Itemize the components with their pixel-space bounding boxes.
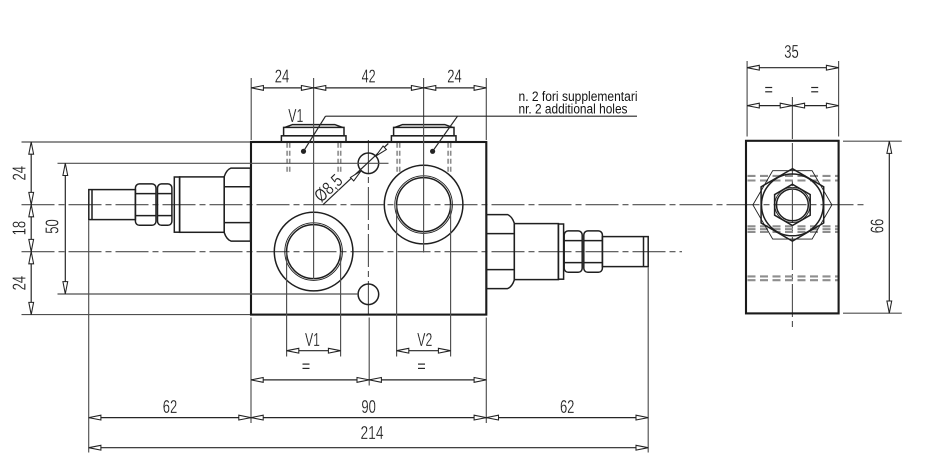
svg-text:50: 50 <box>42 219 62 234</box>
right fitting nut 1 <box>564 231 582 272</box>
left fitting body <box>180 177 225 232</box>
extension lines side view <box>747 61 902 313</box>
hidden thread lines under plug V1 <box>287 143 341 175</box>
right fitting hex <box>487 215 515 289</box>
right fitting nut 2 <box>584 231 603 272</box>
dimension diameter 8.5 <box>310 144 388 206</box>
side view thin hex (back nut) <box>753 171 832 239</box>
dimension V1 bottom <box>287 330 341 353</box>
port V1 (lower left cavity) <box>274 212 353 291</box>
equal-half dimension side view <box>747 88 839 109</box>
dimension chain 62/90/62 <box>89 397 649 420</box>
svg-text:24: 24 <box>447 67 462 87</box>
svg-text:18: 18 <box>10 221 30 236</box>
svg-text:214: 214 <box>361 423 384 443</box>
cavity V1 axis / extension <box>313 78 315 279</box>
port V2 (upper right cavity) <box>384 165 463 244</box>
vertical centerline through small holes <box>367 140 369 317</box>
svg-text:V2: V2 <box>417 330 432 350</box>
extension lines left <box>22 142 389 315</box>
svg-text:24: 24 <box>10 166 30 181</box>
svg-text:V1: V1 <box>288 106 303 126</box>
dimension 214 <box>89 423 649 450</box>
svg-text:90: 90 <box>361 397 376 417</box>
dimension 50 left <box>42 163 67 293</box>
side view small hex <box>775 184 811 225</box>
dimension 24/18/24 left <box>10 142 34 315</box>
equal-half dimension under block <box>251 364 486 382</box>
svg-text:62: 62 <box>560 397 575 417</box>
side view stem circles <box>775 187 810 222</box>
side view block <box>746 141 839 314</box>
left fitting nut 2 <box>158 184 172 225</box>
dimension 66 side view <box>868 141 892 313</box>
svg-text:42: 42 <box>362 67 376 87</box>
small hole top (8.5mm) <box>358 153 379 174</box>
leader note additional holes <box>301 89 638 154</box>
main horizontal centerline <box>22 204 865 206</box>
extension lines bottom <box>89 205 649 453</box>
dimension V2 bottom <box>397 330 451 353</box>
svg-text:66: 66 <box>868 219 888 234</box>
side view hex chamfer circle <box>762 174 824 236</box>
left fitting washer <box>174 177 179 232</box>
svg-text:24: 24 <box>10 276 30 291</box>
valve block front view <box>251 142 486 315</box>
svg-text:62: 62 <box>163 397 178 417</box>
hidden thread lines under plug V2 <box>397 143 451 175</box>
right fitting body <box>514 224 558 280</box>
plug V1 (side view, top) <box>281 125 346 142</box>
svg-text:nr. 2 additional holes: nr. 2 additional holes <box>519 102 628 117</box>
cavity V2 axis / extension <box>423 78 425 253</box>
dimension 35 side view <box>747 42 839 70</box>
left fitting stem <box>89 190 136 220</box>
side view fitting hex (outer) <box>761 169 824 241</box>
side view vertical centerline <box>791 143 793 327</box>
extension lines front view top <box>251 78 486 140</box>
svg-text:35: 35 <box>784 42 799 62</box>
svg-text:24: 24 <box>275 67 290 87</box>
plug V2 (side view, top) <box>391 125 456 142</box>
right fitting washer <box>558 224 563 279</box>
lower horizontal centerline <box>22 251 683 253</box>
right fitting stem <box>602 237 648 267</box>
side view hidden cross-drilling rows <box>748 176 838 280</box>
svg-text:V1: V1 <box>305 330 320 350</box>
small hole bottom (8.5mm) <box>358 284 379 305</box>
left fitting nut 1 <box>135 184 156 225</box>
left fitting hex <box>224 168 250 241</box>
dimension 24/42/24 top <box>251 67 486 91</box>
